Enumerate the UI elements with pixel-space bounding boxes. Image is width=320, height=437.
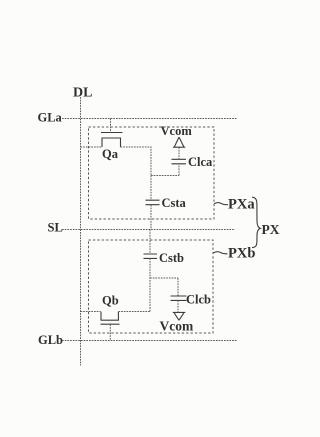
svg-text:GLa: GLa <box>38 111 63 125</box>
svg-text:SL: SL <box>48 221 63 235</box>
lead line to PXa <box>214 203 228 205</box>
svg-text:Vcom: Vcom <box>160 319 194 334</box>
svg-text:Qa: Qa <box>102 147 119 161</box>
transistor Qb gate bar <box>101 323 120 325</box>
svg-text:Clca: Clca <box>188 155 213 169</box>
wire SL storage line <box>62 229 235 231</box>
svg-text:Csta: Csta <box>162 196 187 210</box>
wire SL to Cstb <box>149 230 151 255</box>
wire Clca bottom lead <box>178 165 180 176</box>
wire GLa gate line <box>62 118 237 120</box>
wire node A down to Csta <box>150 176 152 201</box>
Vcom arrow down <box>173 312 186 320</box>
wire Clca top lead <box>178 148 180 160</box>
wire branch node A to Clca <box>151 175 179 177</box>
transistor Qa gate connection wire <box>110 119 112 133</box>
svg-text:Cstb: Cstb <box>159 251 184 265</box>
transistor Qa channel <box>102 138 121 147</box>
wire branch node B to Clcb <box>150 277 178 279</box>
capacitor Clcb plates <box>171 296 187 300</box>
wire DL vertical data line <box>80 97 82 366</box>
wire Qa drain to pixel node A <box>121 147 152 176</box>
dashed box subpixel PXb <box>89 240 214 333</box>
svg-text:DL: DL <box>73 86 92 101</box>
svg-text:Vcom: Vcom <box>161 124 193 138</box>
wire GLb gate line <box>62 340 237 342</box>
svg-text:PXa: PXa <box>228 197 255 213</box>
svg-text:Clcb: Clcb <box>186 293 211 307</box>
wire Qb source to DL <box>81 311 101 313</box>
transistor Qb gate connection wire <box>109 324 111 340</box>
svg-text:PXb: PXb <box>228 246 255 262</box>
capacitor Clca plates <box>172 159 187 164</box>
svg-text:Qb: Qb <box>102 294 119 308</box>
brace for PX <box>252 197 260 247</box>
wire Clcb top lead <box>177 278 179 296</box>
dashed box subpixel PXa <box>89 127 215 219</box>
wire Clcb bottom lead <box>177 301 179 313</box>
wire Qa source to DL <box>81 146 103 148</box>
wire Qb drain to node B <box>118 311 150 313</box>
Vcom arrow up <box>173 137 185 147</box>
svg-text:PX: PX <box>262 222 280 237</box>
transistor Qb channel <box>101 312 118 320</box>
lead line to PXb <box>214 252 228 254</box>
wire Cstb to pixel node B <box>149 258 151 311</box>
capacitor Cstb plates <box>144 254 158 258</box>
svg-text:GLb: GLb <box>38 333 63 347</box>
capacitor Csta plates <box>146 200 160 205</box>
wire Csta to SL <box>150 205 152 230</box>
transistor Qa gate bar <box>101 132 123 134</box>
